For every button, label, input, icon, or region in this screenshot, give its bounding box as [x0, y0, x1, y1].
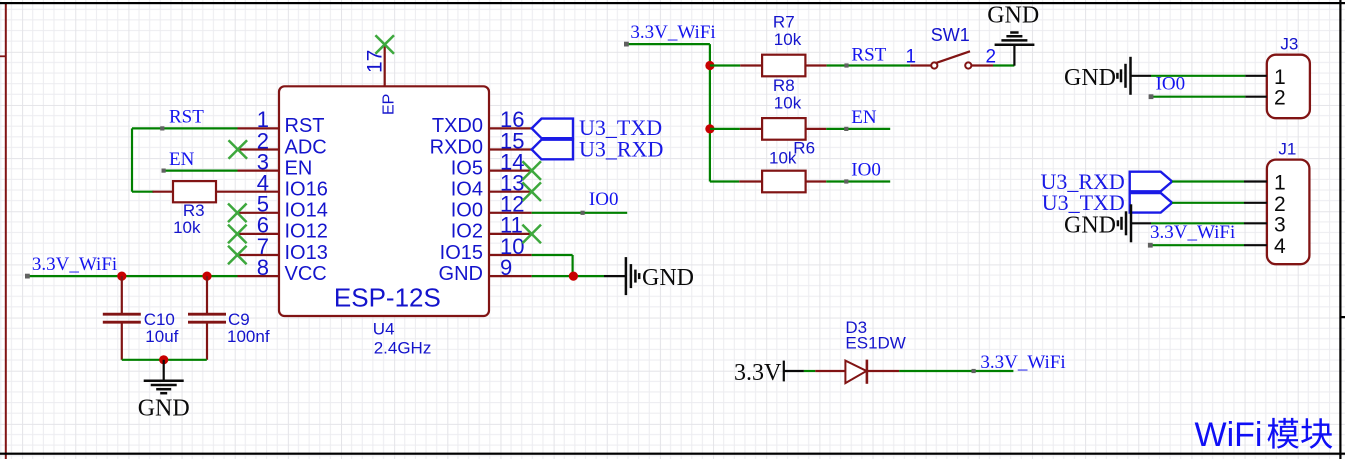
connector J3 body [1267, 55, 1310, 118]
wire GND to J1 pin3 [1151, 222, 1244, 224]
svg-text:1: 1 [1274, 172, 1286, 195]
svg-text:ES1DW: ES1DW [845, 334, 905, 353]
U4 pin 9 GND [439, 255, 532, 285]
svg-text:IO15: IO15 [440, 242, 483, 264]
U4 pin 5 IO14 [238, 192, 328, 222]
svg-text:R8: R8 [773, 76, 795, 95]
frame left border [5, 3, 7, 459]
U4 pin 2 ADC [238, 128, 327, 158]
U4 pin 1 RST [238, 107, 325, 137]
U4 pin 15 RXD0 [430, 128, 532, 158]
wire IO0 (R6) [826, 180, 890, 182]
svg-text:TXD0: TXD0 [432, 115, 483, 137]
wire GND to J3 pin1 [1151, 75, 1245, 77]
IC U4 ESP-12S body [279, 86, 489, 316]
frame left tick [0, 55, 5, 57]
svg-text:IO13: IO13 [285, 242, 328, 264]
svg-text:U3_RXD: U3_RXD [579, 136, 663, 161]
svg-text:1: 1 [906, 47, 917, 68]
svg-text:GND: GND [642, 265, 694, 291]
resistor R8 [710, 76, 826, 140]
wire end marker [25, 274, 30, 279]
ground GND (J3, pointing left) [1064, 57, 1151, 95]
net label anchor RST [160, 126, 164, 130]
wire IO0 to J3 pin2 [1151, 96, 1245, 98]
svg-text:EN: EN [169, 149, 195, 170]
J3 pin 1 [1245, 75, 1267, 77]
wire 3.3V_WiFi to J1 pin4 [1150, 244, 1244, 246]
svg-text:EN: EN [851, 107, 877, 128]
connector J1 body [1267, 160, 1310, 265]
wire end marker [1148, 243, 1153, 248]
wire pin10 jog [532, 254, 573, 256]
svg-text:IO4: IO4 [451, 179, 483, 201]
resistor R7 [710, 12, 827, 76]
svg-text:IO16: IO16 [285, 179, 328, 201]
wire 3.3V_WiFi rail [27, 275, 237, 277]
svg-text:100nf: 100nf [227, 327, 270, 346]
wire RST vertical [131, 128, 133, 191]
svg-text:RST: RST [169, 107, 204, 128]
svg-text:IO0: IO0 [1156, 74, 1186, 95]
svg-text:WiFi: WiFi [1195, 416, 1263, 454]
svg-text:U4: U4 [373, 319, 395, 338]
svg-text:VCC: VCC [285, 263, 327, 285]
no-connect X pin 6 [228, 225, 247, 244]
svg-text:GND: GND [1064, 65, 1116, 91]
wire RST pin1 horizontal [132, 127, 238, 129]
svg-text:IO2: IO2 [451, 221, 483, 243]
power port 3.3V [734, 360, 804, 386]
wire SW1 to GND [993, 64, 1014, 66]
wire pin9 [532, 275, 604, 277]
wire D3 to 3.3V_WiFi [899, 370, 1013, 372]
junction pin9 [569, 272, 578, 281]
U4 pin 6 IO12 [238, 213, 328, 243]
switch SW1 [906, 25, 997, 68]
junction C10/rail [117, 272, 126, 281]
svg-text:2.4GHz: 2.4GHz [374, 339, 432, 358]
net label anchor [844, 127, 848, 131]
ground GND (J1, pointing left) [1064, 204, 1151, 242]
svg-text:10k: 10k [774, 30, 802, 49]
wire feeder vertical [709, 44, 711, 181]
svg-text:10uf: 10uf [145, 327, 178, 346]
no-connect X pin 7 [228, 246, 247, 265]
svg-text:GND: GND [138, 396, 190, 422]
svg-text:8: 8 [257, 255, 269, 280]
U4 pin 16 TXD0 [432, 107, 532, 137]
svg-text:RXD0: RXD0 [430, 136, 483, 158]
wire U3_TXD to J1 pin2 [1172, 202, 1244, 204]
svg-text:3.3V_WiFi: 3.3V_WiFi [1150, 222, 1235, 243]
svg-text:R7: R7 [773, 12, 795, 31]
frame right border [1339, 0, 1341, 459]
svg-text:3.3V_WiFi: 3.3V_WiFi [630, 22, 715, 43]
wire 3.3V to D3 [804, 370, 815, 372]
wire U3_RXD to J1 pin1 [1172, 180, 1244, 182]
J1 pin 4 [1244, 244, 1267, 246]
U4 pin 7 IO13 [238, 234, 328, 264]
U4 pin 3 EN [238, 149, 313, 179]
wire end marker [1149, 94, 1154, 99]
svg-text:IO0: IO0 [451, 200, 483, 222]
ground GND (top right, pointing up) [987, 3, 1039, 66]
net label anchor [844, 63, 848, 67]
ground GND (pin9, pointing right) [604, 257, 694, 295]
net label anchor IO0 [581, 211, 585, 215]
net label anchor [844, 179, 848, 183]
svg-text:J1: J1 [1278, 140, 1296, 159]
svg-text:10k: 10k [774, 94, 802, 113]
diode D3 ES1DW [815, 318, 906, 384]
no-connect X pin 11 [522, 225, 541, 244]
svg-text:2: 2 [986, 47, 997, 68]
netflag U3_RXD (J1) [1040, 169, 1172, 194]
svg-text:RST: RST [851, 45, 886, 66]
frame right tick [1342, 316, 1345, 318]
U4 pin 14 IO5 [451, 149, 532, 179]
J1 pin 3 [1244, 222, 1267, 224]
U4 pin 8 VCC [238, 255, 327, 285]
svg-text:ESP-12S: ESP-12S [334, 283, 441, 313]
no-connect X pin 13 [522, 182, 541, 201]
svg-text:RST: RST [285, 115, 325, 137]
netflag U3_TXD (J1) [1042, 190, 1172, 215]
resistor R6 [710, 138, 826, 192]
svg-text:IO14: IO14 [285, 200, 328, 222]
U4 pin 13 IO4 [451, 171, 532, 201]
wire end marker [624, 42, 629, 47]
svg-text:10k: 10k [769, 149, 797, 168]
svg-text:9: 9 [500, 255, 512, 280]
wire EN (R8) [826, 128, 890, 130]
svg-text:2: 2 [1274, 87, 1286, 110]
svg-text:3.3V_WiFi: 3.3V_WiFi [980, 352, 1065, 373]
U4 pin 4 IO16 [238, 171, 328, 201]
net label anchor EN [162, 169, 166, 173]
net label anchor [972, 369, 976, 373]
svg-text:IO0: IO0 [589, 189, 619, 210]
junction C9/rail [202, 272, 211, 281]
wire EN stub [164, 170, 238, 172]
J1 pin 1 [1244, 180, 1267, 182]
svg-text:EP: EP [380, 94, 397, 115]
capacitor C10 [103, 276, 179, 360]
wire to R3 [132, 191, 154, 193]
svg-text:IO0: IO0 [851, 160, 881, 181]
junction R8 [705, 124, 714, 133]
svg-text:GND: GND [1064, 212, 1116, 238]
netflag U3_RXD (chip) [532, 136, 664, 161]
netflag U3_TXD (chip) [532, 115, 662, 140]
svg-text:3: 3 [1274, 213, 1286, 236]
wire IO0 (chip) [532, 212, 628, 214]
no-connect X pin 5 [228, 204, 247, 223]
U4 pin 12 IO0 [451, 192, 532, 222]
U4 pin 10 IO15 [440, 234, 532, 264]
no-connect X pin 17 [375, 35, 394, 54]
sheet title WiFi module [1195, 416, 1333, 454]
U4 pin 17 EP [364, 45, 398, 116]
wire 3.3V_WiFi top [626, 43, 710, 45]
capacitor C9 [188, 276, 270, 360]
junction R7 [705, 61, 714, 70]
svg-text:SW1: SW1 [931, 25, 970, 45]
ground GND (bottom) [138, 360, 190, 422]
J1 pin 2 [1244, 202, 1267, 204]
frame bottom border [0, 453, 1345, 455]
svg-text:1: 1 [1274, 66, 1286, 89]
svg-text:GND: GND [439, 263, 483, 285]
svg-text:ADC: ADC [285, 136, 327, 158]
svg-text:3.3V_WiFi: 3.3V_WiFi [32, 254, 117, 275]
svg-text:4: 4 [1274, 235, 1286, 258]
no-connect X pin 14 [522, 161, 541, 180]
svg-text:10k: 10k [173, 218, 201, 237]
svg-text:R6: R6 [793, 138, 815, 157]
J3 pin 2 [1245, 96, 1267, 98]
wire RST (to SW1) [827, 64, 911, 66]
svg-text:EN: EN [285, 157, 313, 179]
svg-text:GND: GND [987, 3, 1039, 29]
wire caps bottom [122, 359, 207, 361]
frame top border [0, 2, 1345, 4]
resistor R3 [153, 181, 238, 237]
svg-text:IO5: IO5 [451, 157, 483, 179]
no-connect X pin 2 [229, 140, 248, 159]
svg-text:J3: J3 [1280, 35, 1298, 54]
junction caps/GND [159, 355, 168, 364]
U4 pin 11 IO2 [451, 213, 532, 243]
svg-text:IO12: IO12 [285, 221, 328, 243]
svg-text:3.3V: 3.3V [734, 360, 782, 386]
